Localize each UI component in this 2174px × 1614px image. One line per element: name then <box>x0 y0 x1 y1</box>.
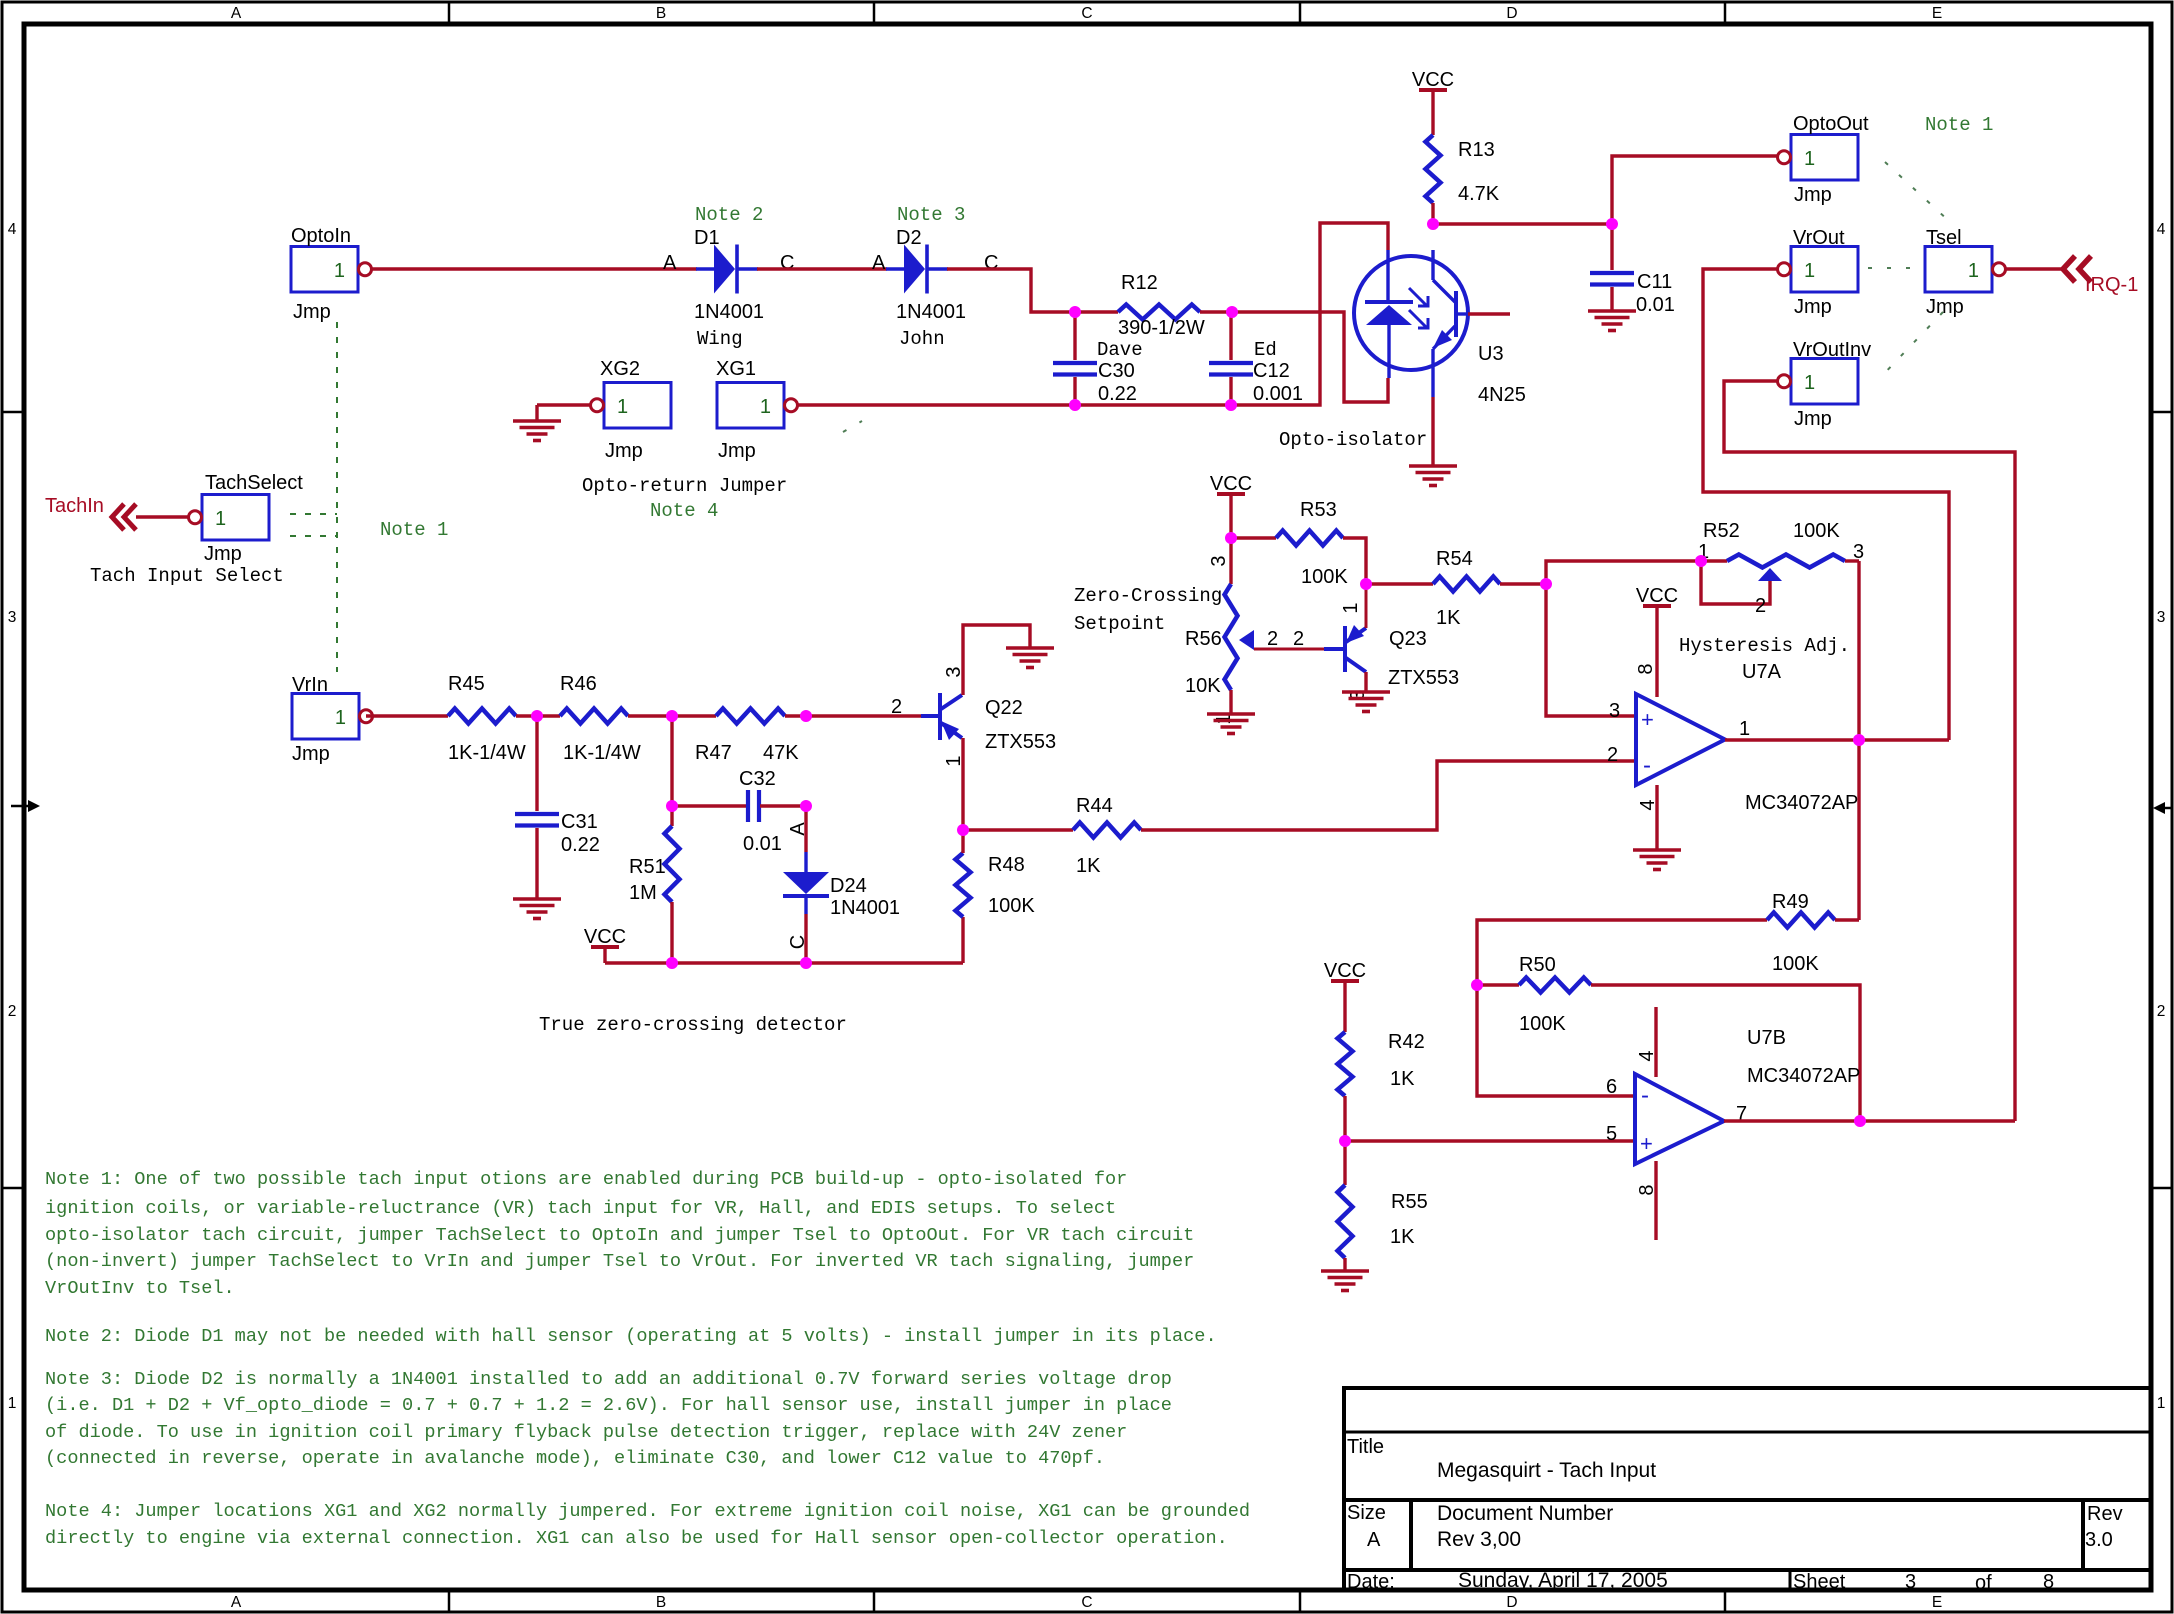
potentiometer R56 10K <box>1185 538 1324 725</box>
svg-text:4: 4 <box>2157 221 2166 238</box>
svg-text:IRQ-1: IRQ-1 <box>2085 274 2138 296</box>
dashed select line to VrIn <box>290 535 337 537</box>
notes text block <box>45 1169 1250 1549</box>
svg-text:Jmp: Jmp <box>204 543 242 565</box>
jumper XG2 <box>591 358 672 462</box>
note 1 ref near Tsel <box>1925 114 1993 136</box>
wire R45 to R46 <box>516 714 560 717</box>
svg-text:Jmp: Jmp <box>1794 408 1832 430</box>
node junction C31 <box>531 710 543 722</box>
capacitor C12 0.001 <box>1209 312 1303 405</box>
svg-text:Note 4: Note 4 <box>650 500 718 522</box>
svg-text:D1: D1 <box>694 227 720 249</box>
svg-text:Document Number: Document Number <box>1437 1502 1613 1525</box>
svg-text:Zero-Crossing: Zero-Crossing <box>1074 585 1222 607</box>
wire Q22 collector to ground <box>963 625 1030 695</box>
svg-text:VrOutInv to Tsel.: VrOutInv to Tsel. <box>45 1278 235 1299</box>
svg-text:R53: R53 <box>1300 499 1337 521</box>
wire XG return rail to LED cathode <box>798 223 1388 405</box>
node R13 junction <box>1427 218 1439 230</box>
svg-text:1: 1 <box>335 707 346 729</box>
dashed link OptoOut-Tsel <box>1885 162 1950 222</box>
svg-text:1: 1 <box>8 1395 17 1412</box>
port IRQ-1 <box>2063 256 2138 296</box>
ground at Q23 collector <box>1342 692 1390 712</box>
svg-text:10K: 10K <box>1185 675 1221 697</box>
wire Q23 collector to ground <box>1364 672 1367 692</box>
transistor Q23 ZTX553 <box>1324 584 1459 701</box>
svg-text:Q22: Q22 <box>985 697 1023 719</box>
svg-text:R52: R52 <box>1703 520 1740 542</box>
transistor Q22 ZTX553 <box>921 693 1056 753</box>
svg-text:Jmp: Jmp <box>1794 296 1832 318</box>
note 2 ref <box>695 204 763 226</box>
svg-text:100K: 100K <box>988 895 1035 917</box>
svg-text:ignition coils, or variable-re: ignition coils, or variable-reluctrance … <box>45 1198 1116 1219</box>
resistor R47 47K <box>695 709 799 765</box>
op-amp U7A MC34072AP <box>1636 694 1725 785</box>
svg-text:Opto-return Jumper: Opto-return Jumper <box>582 475 787 497</box>
svg-text:VrOutInv: VrOutInv <box>1793 339 1871 361</box>
resistor R42 1K <box>1338 1031 1425 1141</box>
pin 3 label U7A <box>1609 700 1620 722</box>
capacitor C31 0.22 <box>515 716 600 899</box>
svg-text:R55: R55 <box>1391 1191 1428 1213</box>
node junction R52 pin1 <box>1695 555 1707 567</box>
svg-text:ZTX553: ZTX553 <box>1388 667 1459 689</box>
svg-text:Note 2: Diode D1 may not be ne: Note 2: Diode D1 may not be needed with … <box>45 1326 1217 1347</box>
jumper Tsel <box>1925 227 2006 318</box>
svg-text:TachSelect: TachSelect <box>205 472 303 494</box>
wire Tsel to IRQ-1 <box>2006 267 2063 270</box>
svg-text:Jmp: Jmp <box>1926 296 1964 318</box>
resistor R45 1K-1/4W <box>448 673 526 764</box>
wire U3 base stub <box>1468 312 1510 315</box>
svg-text:R46: R46 <box>560 673 597 695</box>
svg-text:1K: 1K <box>1436 607 1461 629</box>
svg-text:8: 8 <box>1635 663 1657 674</box>
svg-text:+: + <box>1640 1131 1653 1156</box>
svg-text:1K: 1K <box>1076 855 1101 877</box>
pin 5 label U7B <box>1606 1123 1617 1145</box>
resistor R12 390-1/2W <box>1118 272 1205 339</box>
right border center arrow <box>2153 802 2172 814</box>
dashed link VrOut-Tsel <box>1868 267 1920 269</box>
svg-text:1N4001: 1N4001 <box>830 897 900 919</box>
svg-text:XG2: XG2 <box>600 358 640 380</box>
pin 7 label U7B <box>1736 1103 1747 1125</box>
ground at C31 <box>513 899 561 919</box>
power VCC at R13 <box>1412 69 1454 135</box>
svg-text:C: C <box>780 252 794 274</box>
svg-text:opto-isolator tach circuit, ju: opto-isolator tach circuit, jumper TachS… <box>45 1225 1194 1246</box>
svg-text:C12: C12 <box>1253 360 1290 382</box>
svg-text:B: B <box>656 1594 666 1611</box>
dashed link Tsel-VrOutInv <box>1878 312 1943 380</box>
wire U7B pin8 stub <box>1654 1161 1657 1240</box>
svg-text:1K-1/4W: 1K-1/4W <box>448 742 526 764</box>
svg-text:MC34072AP: MC34072AP <box>1745 792 1858 814</box>
node junction U7A output <box>1853 734 1865 746</box>
svg-text:U7B: U7B <box>1747 1027 1786 1049</box>
svg-text:Note 4: Jumper locations XG1 a: Note 4: Jumper locations XG1 and XG2 nor… <box>45 1501 1250 1522</box>
ground at R56 <box>1207 714 1255 734</box>
node junction R53-R56 <box>1225 532 1237 544</box>
wire R51 bottom <box>670 902 673 963</box>
node junction R44 <box>957 824 969 836</box>
svg-text:(i.e. D1 + D2 + Vf_opto_diode: (i.e. D1 + D2 + Vf_opto_diode = 0.7 + 0.… <box>45 1395 1172 1416</box>
svg-text:Jmp: Jmp <box>605 440 643 462</box>
svg-text:VrOut: VrOut <box>1793 227 1845 249</box>
wire U3 emitter to ground <box>1431 397 1434 466</box>
svg-text:1: 1 <box>1804 260 1815 282</box>
resistor R44 1K <box>963 795 1141 877</box>
svg-text:6: 6 <box>1606 1076 1617 1098</box>
svg-text:C31: C31 <box>561 811 598 833</box>
capacitor C32 0.01 <box>672 768 806 855</box>
svg-text:Sheet: Sheet <box>1793 1571 1846 1593</box>
ground at R55 <box>1321 1271 1369 1291</box>
svg-text:True zero-crossing detector: True zero-crossing detector <box>539 1014 847 1036</box>
svg-text:B: B <box>656 5 666 22</box>
svg-text:3: 3 <box>1208 555 1230 566</box>
wire R46 to R47 <box>628 714 716 717</box>
label Opto-return Jumper <box>582 475 787 497</box>
svg-text:Note 1: One of two possible ta: Note 1: One of two possible tach input o… <box>45 1169 1127 1190</box>
wire R53 to Q23 emitter <box>1343 538 1366 584</box>
svg-text:8: 8 <box>2043 1571 2054 1593</box>
svg-text:4: 4 <box>1636 1050 1658 1061</box>
resistor R51 1M <box>629 826 680 904</box>
pin 8 label U7B <box>1636 1184 1658 1195</box>
pin A of D2 <box>872 252 886 274</box>
resistor R54 1K <box>1366 548 1546 629</box>
svg-text:Note 2: Note 2 <box>695 204 763 226</box>
label MC34072AP U7B <box>1747 1065 1860 1087</box>
node junction C12 bottom <box>1225 399 1237 411</box>
svg-text:A: A <box>872 252 886 274</box>
svg-text:5: 5 <box>1606 1123 1617 1145</box>
svg-text:1: 1 <box>760 396 771 418</box>
svg-text:Jmp: Jmp <box>718 440 756 462</box>
svg-text:100K: 100K <box>1519 1013 1566 1035</box>
diode D2 1N4001 <box>886 227 966 350</box>
svg-text:C32: C32 <box>739 768 776 790</box>
node junction U7B output <box>1854 1115 1866 1127</box>
svg-text:R12: R12 <box>1121 272 1158 294</box>
dashed select line to OptoIn <box>290 513 337 515</box>
power VCC at U7A pin8 <box>1636 585 1678 697</box>
svg-text:TachIn: TachIn <box>45 495 104 517</box>
svg-text:(connected in reverse, operate: (connected in reverse, operate in avalan… <box>45 1448 1105 1469</box>
dashed mark near XG1 <box>843 421 862 432</box>
op-amp U7B MC34072AP <box>1635 1074 1724 1164</box>
wire U7B pin4 stub <box>1654 1007 1657 1077</box>
svg-text:2: 2 <box>8 1003 17 1020</box>
svg-text:OptoOut: OptoOut <box>1793 113 1869 135</box>
pin 8 label U7A <box>1635 663 1657 674</box>
diode D1 1N4001 <box>694 227 764 350</box>
wire D2 to R12 <box>947 269 1118 312</box>
svg-text:4N25: 4N25 <box>1478 384 1526 406</box>
pin 4 label U7A <box>1637 799 1659 810</box>
svg-text:R45: R45 <box>448 673 485 695</box>
node junction C32 right <box>800 800 812 812</box>
svg-text:D: D <box>1506 5 1517 22</box>
pin C of D1 <box>780 252 794 274</box>
svg-text:1K-1/4W: 1K-1/4W <box>563 742 641 764</box>
node junction C32 left <box>666 800 678 812</box>
wire D1 to D2 <box>757 267 887 270</box>
resistor R49 100K <box>1477 740 1859 985</box>
svg-text:A: A <box>231 5 242 22</box>
resistor R13 4.7K <box>1426 135 1500 205</box>
label Tach Input Select <box>90 565 284 587</box>
label MC34072AP U7A <box>1745 792 1858 814</box>
wire R13 junction to C11 junction <box>1433 222 1612 225</box>
svg-text:1: 1 <box>617 396 628 418</box>
jumper VrIn <box>292 674 373 765</box>
wire output to VrOutInv <box>1724 381 2015 1121</box>
svg-text:VCC: VCC <box>584 926 626 948</box>
svg-text:1: 1 <box>334 260 345 282</box>
svg-text:1M: 1M <box>629 882 657 904</box>
title block frame <box>1344 1388 2151 1590</box>
svg-text:Note 3: Diode D2 is normally a: Note 3: Diode D2 is normally a 1N4001 in… <box>45 1369 1172 1390</box>
wire R54 junction down to U7A pin3 <box>1546 584 1636 716</box>
svg-text:0.22: 0.22 <box>1098 383 1137 405</box>
title block texts <box>1347 1436 2123 1594</box>
wire U7A output <box>1725 738 1949 741</box>
svg-text:100K: 100K <box>1772 953 1819 975</box>
label U7B <box>1747 1027 1786 1049</box>
svg-text:VrIn: VrIn <box>292 674 328 696</box>
svg-text:+: + <box>1641 707 1654 732</box>
svg-text:0.01: 0.01 <box>1636 294 1675 316</box>
svg-text:R49: R49 <box>1772 891 1809 913</box>
svg-text:3: 3 <box>2157 609 2166 626</box>
svg-text:D24: D24 <box>830 875 867 897</box>
svg-text:Rev: Rev <box>2087 1503 2123 1525</box>
svg-text:2: 2 <box>891 696 902 718</box>
svg-text:1: 1 <box>1804 372 1815 394</box>
resistor R53 100K <box>1231 499 1348 588</box>
svg-text:Sunday, April 17, 2005: Sunday, April 17, 2005 <box>1458 1569 1668 1592</box>
svg-text:Opto-isolator: Opto-isolator <box>1279 429 1427 451</box>
svg-text:1K: 1K <box>1390 1226 1415 1248</box>
svg-text:2: 2 <box>1607 744 1618 766</box>
svg-text:4: 4 <box>8 221 17 238</box>
svg-text:MC34072AP: MC34072AP <box>1747 1065 1860 1087</box>
svg-text:Note 1: Note 1 <box>380 519 448 541</box>
svg-text:R44: R44 <box>1076 795 1113 817</box>
wire bottom rail <box>605 961 963 964</box>
svg-text:Ed: Ed <box>1254 339 1277 361</box>
pin A of D1 <box>663 252 677 274</box>
svg-text:8: 8 <box>1636 1184 1658 1195</box>
port TachIn <box>45 495 136 530</box>
ground at U7A pin4 <box>1633 850 1681 870</box>
svg-text:100K: 100K <box>1793 520 1840 542</box>
wire R13 to junction <box>1431 203 1434 224</box>
svg-text:2: 2 <box>2157 1003 2166 1020</box>
svg-text:John: John <box>899 328 945 350</box>
label Zero-Crossing Setpoint <box>1074 585 1222 635</box>
svg-text:(non-invert) jumper TachSelect: (non-invert) jumper TachSelect to VrIn a… <box>45 1251 1194 1272</box>
svg-text:Jmp: Jmp <box>293 301 331 323</box>
svg-text:C: C <box>787 935 809 949</box>
svg-text:2: 2 <box>1755 595 1766 617</box>
jumper VrOutInv <box>1778 339 1872 430</box>
left border center arrow <box>11 800 40 812</box>
note 4 ref <box>650 500 718 522</box>
svg-text:C: C <box>1081 1594 1092 1611</box>
svg-text:3: 3 <box>1905 1571 1916 1593</box>
svg-text:1: 1 <box>215 508 226 530</box>
svg-text:XG1: XG1 <box>716 358 756 380</box>
svg-text:R51: R51 <box>629 856 666 878</box>
power VCC at R42 <box>1324 960 1366 1032</box>
jumper VrOut <box>1778 227 1859 318</box>
node C11 junction <box>1606 218 1618 230</box>
svg-text:100K: 100K <box>1301 566 1348 588</box>
svg-text:U7A: U7A <box>1742 661 1782 683</box>
svg-text:1: 1 <box>1968 260 1979 282</box>
power VCC at detector rail <box>584 926 626 963</box>
wire R12 to LED anode <box>1200 312 1388 402</box>
svg-text:Tsel: Tsel <box>1926 227 1962 249</box>
svg-text:of diode. To use in ignition c: of diode. To use in ignition coil primar… <box>45 1422 1127 1443</box>
node junction C30 top <box>1069 306 1081 318</box>
jumper OptoIn <box>291 225 372 323</box>
node junction R54 right <box>1540 578 1552 590</box>
pin 6 label U7B <box>1606 1076 1617 1098</box>
pin 2 labels R56-Q23 <box>1267 628 1304 650</box>
svg-text:VCC: VCC <box>1636 585 1678 607</box>
wire junction to OptoOut pin <box>1612 156 1777 224</box>
ground at XG2 <box>513 405 590 441</box>
wire U7B output <box>1724 1119 2015 1122</box>
ground at Q22 collector <box>1006 648 1054 668</box>
svg-text:4.7K: 4.7K <box>1458 183 1500 205</box>
svg-text:R54: R54 <box>1436 548 1473 570</box>
svg-text:390-1/2W: 390-1/2W <box>1118 317 1205 339</box>
node junction D24 top <box>800 710 812 722</box>
svg-text:VCC: VCC <box>1210 473 1252 495</box>
ground at U3 emitter <box>1409 466 1457 486</box>
resistor R46 1K-1/4W <box>560 673 641 764</box>
resistor R50 100K <box>1477 954 1860 1121</box>
svg-text:1N4001: 1N4001 <box>896 301 966 323</box>
node junction C12 top <box>1226 306 1238 318</box>
svg-text:of: of <box>1975 1572 1992 1594</box>
svg-text:1: 1 <box>1804 148 1815 170</box>
opto-isolator U3 4N25 <box>1354 250 1526 406</box>
svg-text:D: D <box>1506 1594 1517 1611</box>
pin C of D2 <box>984 252 998 274</box>
svg-text:R47: R47 <box>695 742 732 764</box>
wire R50 junction to U7B pin6 <box>1477 985 1635 1096</box>
svg-text:-: - <box>1643 752 1651 779</box>
wire junction to U7B pin5 <box>1345 1139 1635 1142</box>
svg-text:Size: Size <box>1347 1502 1386 1524</box>
wire Q22 emitter down <box>961 738 964 830</box>
label U7A <box>1742 661 1782 683</box>
wire R47 to Q22 base <box>785 714 938 717</box>
svg-text:A: A <box>663 252 677 274</box>
label Opto-isolator <box>1279 429 1427 451</box>
svg-text:A: A <box>787 822 809 836</box>
resistor R55 1K <box>1338 1141 1428 1271</box>
svg-text:1: 1 <box>1340 602 1362 613</box>
svg-text:D2: D2 <box>896 227 922 249</box>
pin 3 label Q22 <box>943 666 965 677</box>
svg-text:C30: C30 <box>1098 360 1135 382</box>
wire OptoIn to D1 <box>372 267 697 270</box>
pin 1 label U7A <box>1739 718 1750 740</box>
svg-text:3: 3 <box>1609 700 1620 722</box>
svg-text:Hysteresis Adj.: Hysteresis Adj. <box>1679 635 1850 657</box>
svg-text:3: 3 <box>8 609 17 626</box>
pin 4 label U7B <box>1636 1050 1658 1061</box>
jumper XG1 <box>716 358 798 462</box>
power VCC at setpoint <box>1210 473 1252 538</box>
svg-text:1K: 1K <box>1390 1068 1415 1090</box>
svg-text:A: A <box>1367 1529 1381 1551</box>
capacitor C11 0.01 <box>1590 224 1675 316</box>
svg-text:VCC: VCC <box>1412 69 1454 91</box>
svg-text:47K: 47K <box>763 742 799 764</box>
note 1 ref near TachSelect <box>380 519 448 541</box>
svg-text:Jmp: Jmp <box>292 743 330 765</box>
ground at C11 <box>1588 311 1636 331</box>
node junction Q23 emitter <box>1360 578 1372 590</box>
svg-text:0.22: 0.22 <box>561 834 600 856</box>
svg-text:2: 2 <box>1267 628 1278 650</box>
svg-text:4: 4 <box>1637 799 1659 810</box>
node junction R51 bottom <box>666 957 678 969</box>
svg-text:Megasquirt - Tach Input: Megasquirt - Tach Input <box>1437 1459 1656 1482</box>
svg-text:R13: R13 <box>1458 139 1495 161</box>
wire R54 junction up to R52 <box>1546 561 1701 584</box>
node junction D24 bottom <box>800 957 812 969</box>
node junction C30 bottom <box>1069 399 1081 411</box>
svg-text:1: 1 <box>1739 718 1750 740</box>
potentiometer R52 100K <box>1698 520 1864 617</box>
wire output to VrOut <box>1703 269 1949 740</box>
svg-text:0.001: 0.001 <box>1253 383 1303 405</box>
wire VrIn to R45 <box>366 714 448 717</box>
svg-text:Note 1: Note 1 <box>1925 114 1993 136</box>
wire R52 pin3 down to output node <box>1857 561 1860 740</box>
svg-text:U3: U3 <box>1478 343 1504 365</box>
svg-text:Tach Input Select: Tach Input Select <box>90 565 284 587</box>
node junction R42-R55-pin5 <box>1339 1135 1351 1147</box>
pin 2 label Q22 <box>891 696 902 718</box>
svg-text:R42: R42 <box>1388 1031 1425 1053</box>
svg-text:-: - <box>1641 1082 1649 1109</box>
svg-text:R56: R56 <box>1185 628 1222 650</box>
jumper TachSelect <box>189 472 304 565</box>
pin 2 label U7A <box>1607 744 1618 766</box>
svg-text:3.0: 3.0 <box>2085 1529 2113 1551</box>
capacitor C30 0.22 <box>1053 312 1143 405</box>
diode D24 1N4001 <box>783 806 900 963</box>
wire U7A pin4 to ground <box>1655 785 1658 850</box>
wire R51 top <box>670 716 673 826</box>
svg-text:Jmp: Jmp <box>1794 184 1832 206</box>
label Hysteresis Adj. <box>1679 635 1850 657</box>
